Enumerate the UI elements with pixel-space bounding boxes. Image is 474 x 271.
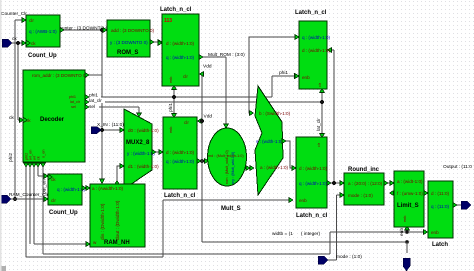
latch Latch_n_cl 2 (top right) bbox=[295, 10, 331, 89]
wire Round_inc q to Limit_S a bbox=[384, 181, 394, 186]
wire out_en rail y257 to latch4 enb bbox=[26, 166, 293, 257]
svg-text:d : (width-1:0): d : (width-1:0) bbox=[166, 150, 195, 155]
wire lat_clr net bbox=[85, 89, 325, 138]
wire sel net bbox=[85, 104, 142, 118]
svg-text:clr: clr bbox=[183, 74, 188, 79]
svg-text:RAM_NH: RAM_NH bbox=[104, 240, 130, 246]
latch Latch_n_cl 3 (middle) bbox=[163, 117, 201, 199]
svg-text:Latch_n_cl: Latch_n_cl bbox=[295, 10, 327, 16]
wire X_IN net bbox=[97, 122, 124, 128]
wire ROM y to Latch1 d bbox=[150, 40, 162, 45]
svg-text:Count_Up: Count_Up bbox=[49, 210, 78, 216]
svg-text:Count_Up: Count_Up bbox=[28, 53, 57, 59]
svg-text:clr: clr bbox=[184, 120, 189, 125]
svg-text:Decoder: Decoder bbox=[40, 117, 65, 123]
svg-text:enb: enb bbox=[403, 216, 407, 222]
svg-text:enb: enb bbox=[169, 77, 173, 83]
wire MUX y to Latch3 d bbox=[152, 150, 163, 155]
svg-text:d1 : (width-1:0): d1 : (width-1:0) bbox=[128, 164, 159, 169]
wire Latch3 q to Mult md bbox=[197, 159, 209, 164]
wire RAM_Counter_Clr net bbox=[9, 192, 49, 202]
mux MUX2_8 bbox=[124, 109, 159, 189]
wire Counter_Clr net bbox=[1, 11, 27, 201]
svg-text:q : (width-1:0): q : (width-1:0) bbox=[302, 35, 331, 40]
svg-text:y : (3 DOWNTO 0): y : (3 DOWNTO 0) bbox=[110, 40, 148, 45]
svg-text:113: 113 bbox=[164, 18, 172, 24]
counter Count_Up (top) bbox=[22, 15, 64, 59]
limiter Limit_S bbox=[394, 171, 428, 227]
input port ck bbox=[2, 39, 12, 47]
svg-text:ROM_S: ROM_S bbox=[117, 50, 138, 56]
svg-text:sel: sel bbox=[71, 105, 76, 109]
svg-text:enb: enb bbox=[431, 230, 439, 235]
svg-text:add : (3 DOWNTO 0): add : (3 DOWNTO 0) bbox=[111, 28, 155, 33]
input port RAM_Counter_Clr bbox=[1, 195, 11, 203]
wire Limit_S f stub bbox=[390, 191, 395, 196]
ram RAM_NH bbox=[90, 184, 145, 247]
wire enb rail to Latch and Limit_S bbox=[330, 226, 428, 254]
latch Latch_n_cl 1 bbox=[158, 7, 203, 86]
svg-text:din : (Dwidth-1:0): din : (Dwidth-1:0) bbox=[100, 203, 106, 240]
svg-text:Output : (11:0: Output : (11:0 bbox=[443, 164, 472, 170]
wire CountUp2 q to RAM a bbox=[82, 186, 90, 191]
svg-text:Vdd: Vdd bbox=[203, 64, 212, 70]
svg-text:enb: enb bbox=[302, 75, 310, 80]
output port bottom (down) bbox=[403, 258, 410, 271]
svg-text:mode : (1:0): mode : (1:0) bbox=[336, 254, 362, 260]
svg-text:Latch_n_cl: Latch_n_cl bbox=[296, 213, 328, 219]
svg-text:a : (Awidth-1:0): a : (Awidth-1:0) bbox=[92, 186, 124, 191]
input port X_IN bbox=[91, 127, 101, 134]
wire parameter annotation bbox=[272, 231, 321, 237]
wire Limit_S out to Latch d bbox=[424, 191, 428, 196]
wire shifter s to Latch4 d bbox=[282, 141, 296, 171]
svg-text:X_IN : (11:0): X_IN : (11:0) bbox=[97, 122, 124, 128]
wire Vdd net vertical bbox=[198, 64, 409, 244]
svg-text:phi2: phi2 bbox=[8, 153, 14, 162]
svg-text:d : (11:0): d : (11:0) bbox=[431, 191, 450, 196]
svg-text:ck: ck bbox=[37, 156, 41, 160]
wire Latch q to Output port bbox=[443, 164, 472, 205]
svg-text:Vdd: Vdd bbox=[204, 114, 213, 120]
svg-text:a : (width-1:0): a : (width-1:0) bbox=[260, 165, 289, 170]
svg-text:enb: enb bbox=[299, 198, 307, 203]
svg-text:my : (Mult_wid-1:0): my : (Mult_wid-1:0) bbox=[231, 151, 235, 184]
svg-text:lat_clr: lat_clr bbox=[316, 118, 322, 131]
rom ROM_S bbox=[103, 20, 155, 57]
svg-text:Counter_Clr: Counter_Clr bbox=[1, 11, 27, 17]
wire Latch2 q to shifter b bbox=[249, 37, 299, 116]
svg-text:mode : (1:0): mode : (1:0) bbox=[348, 193, 373, 198]
svg-text:q : (width-1:0): q : (width-1:0) bbox=[299, 181, 328, 186]
svg-text:clr: clr bbox=[29, 18, 34, 23]
wire ck input net bbox=[9, 36, 26, 123]
svg-text:s : (wdth-1:0): s : (wdth-1:0) bbox=[256, 139, 283, 144]
svg-text:d0 : (width-1:0): d0 : (width-1:0) bbox=[128, 128, 159, 133]
svg-text:q : (width-1:0): q : (width-1:0) bbox=[166, 159, 195, 164]
svg-text:b : (Swidth-1:0): b : (Swidth-1:0) bbox=[259, 111, 291, 116]
svg-text:Limit_S: Limit_S bbox=[397, 203, 419, 209]
wire RAM w net bbox=[30, 166, 90, 247]
svg-text:y : (width-1:0): y : (width-1:0) bbox=[127, 151, 155, 156]
svg-text:q : (11:0): q : (11:0) bbox=[431, 204, 450, 209]
wire Mult out to shifter a bbox=[245, 166, 254, 171]
rounder Round_inc bbox=[344, 167, 388, 205]
svg-text:rom : (Mult_wid-1:0): rom : (Mult_wid-1:0) bbox=[225, 150, 229, 184]
svg-text:dout : (Dwidth-1:0): dout : (Dwidth-1:0) bbox=[115, 200, 121, 240]
wire Rom_Counter bus (CountUp q to ROM add, RAM din, rom_addr) bbox=[43, 26, 124, 185]
multiplier Mult_S (circle) bbox=[208, 128, 251, 212]
svg-text:f : (umw-1:0): f : (umw-1:0) bbox=[397, 191, 423, 196]
counter Count_Up (bottom) bbox=[48, 174, 86, 216]
svg-text:q : (AWB-1:0): q : (AWB-1:0) bbox=[29, 29, 57, 34]
svg-text:Latch: Latch bbox=[432, 242, 448, 248]
svg-text:Round_inc: Round_inc bbox=[348, 167, 380, 173]
svg-text:Latch_n_cl: Latch_n_cl bbox=[160, 7, 192, 13]
svg-text:sel: sel bbox=[89, 104, 95, 110]
output port Output bbox=[461, 201, 471, 209]
svg-text:phi1: phi1 bbox=[279, 70, 288, 76]
svg-text:q : (width-1:0): q : (width-1:0) bbox=[57, 187, 86, 192]
wire mode net bbox=[328, 193, 362, 261]
svg-text:d : (width-1:0): d : (width-1:0) bbox=[166, 41, 195, 46]
latch Latch_n_cl 4 (right middle) bbox=[296, 137, 331, 219]
svg-text:lat_clr: lat_clr bbox=[70, 100, 81, 104]
svg-text:clr: clr bbox=[51, 198, 56, 203]
svg-text:enb: enb bbox=[169, 127, 173, 133]
wire phi2 rail y254 from decoder bbox=[43, 166, 330, 254]
decoder Decoder bbox=[8, 70, 89, 194]
svg-text:ck: ck bbox=[31, 41, 36, 46]
svg-text:phi1: phi1 bbox=[69, 95, 76, 99]
svg-text:enb: enb bbox=[399, 228, 405, 236]
wire phi1 net bbox=[85, 70, 299, 118]
svg-text:widtb = (1 ( integer): widtb = (1 ( integer) bbox=[272, 231, 321, 237]
svg-text:lat_clr: lat_clr bbox=[89, 98, 102, 104]
svg-text:d : (width-1:0): d : (width-1:0) bbox=[302, 48, 331, 53]
svg-text:phi1: phi1 bbox=[168, 103, 174, 112]
svg-text:a : (20:0) : (12:0): a : (20:0) : (12:0) bbox=[348, 181, 383, 186]
shifter / scale block (trapezoid) bbox=[255, 86, 291, 195]
svg-text:a : (widt-1:0): a : (widt-1:0) bbox=[397, 179, 423, 184]
window chrome bottom-left bbox=[0, 0, 6, 271]
svg-text:q : (width-1:0): q : (width-1:0) bbox=[166, 55, 195, 60]
svg-text:Latch_n_cl: Latch_n_cl bbox=[164, 193, 196, 199]
svg-text:Mult_ROM : (3:0): Mult_ROM : (3:0) bbox=[208, 52, 245, 58]
svg-text:o_en: o_en bbox=[42, 150, 46, 158]
svg-text:ck: ck bbox=[51, 177, 56, 182]
svg-text:rom_addr : (3 DOWNTO 0): rom_addr : (3 DOWNTO 0) bbox=[32, 73, 88, 78]
svg-text:ck: ck bbox=[12, 36, 17, 42]
svg-text:Mult_S: Mult_S bbox=[221, 206, 241, 212]
wire feedback net (Latch4 q / Round_inc a / Latch2 d) bbox=[327, 48, 344, 186]
wire Mult_ROM net (Latch1 q to multiplier top) bbox=[199, 52, 245, 128]
latch Latch (output) bbox=[428, 181, 457, 248]
wire decoder to CountUp2 ck bbox=[38, 166, 48, 179]
input port mode bbox=[318, 256, 328, 264]
svg-text:ck: ck bbox=[9, 115, 14, 121]
svg-text:MUX2_8: MUX2_8 bbox=[126, 140, 150, 146]
svg-text:d : (width-1:0): d : (width-1:0) bbox=[299, 166, 328, 171]
svg-text:out_en: out_en bbox=[42, 179, 48, 194]
